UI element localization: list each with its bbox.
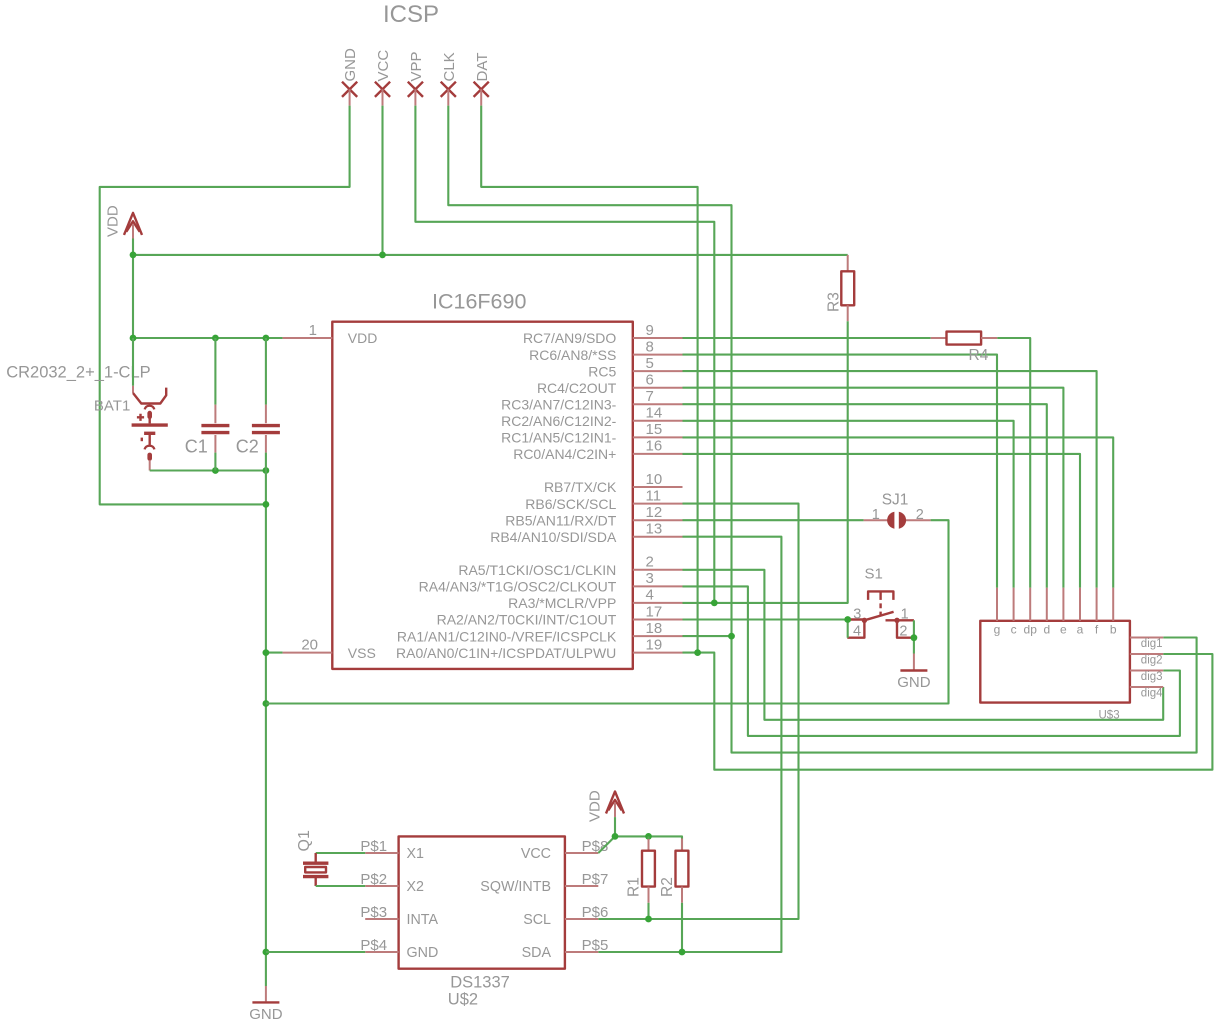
svg-text:RC7/AN9/SDO: RC7/AN9/SDO [523,330,616,346]
svg-text:4: 4 [853,624,861,640]
svg-text:RC5: RC5 [588,363,616,379]
svg-text:P$6: P$6 [582,904,609,921]
svg-text:P$5: P$5 [582,937,609,954]
wire: R4 to display dp [997,338,1030,588]
IC pin 8 RC6/AN8/*SS [633,354,683,356]
svg-text:13: 13 [646,521,663,538]
junction: VPP / RA3 [711,600,718,607]
svg-text:RB5/AN11/RX/DT: RB5/AN11/RX/DT [505,512,616,528]
svg-text:5: 5 [646,355,654,372]
IC pin 4 RA3/*MCLR/VPP [633,602,683,604]
battery BAT1 negative plate [144,432,155,435]
wire: S1 pin 2 to GND [913,620,915,653]
wire: ground rail to IC VSS pin 20 [266,652,283,654]
display U$3 pin d [1046,588,1048,621]
svg-text:d: d [1043,623,1050,637]
svg-text:RC3/AN7/C12IN3-: RC3/AN7/C12IN3- [501,396,616,412]
IC pin 12 RB5/AN11/RX/DT [633,519,683,521]
VDD symbol pin [132,224,134,239]
IC pin 3 RA4/AN3/*T1G/OSC2/CLKOUT [633,585,683,587]
ICSP pad CLK: not-connected X mark [441,82,456,97]
ICSP pad CLK pin stub [447,89,449,105]
ground symbol (S1) bar [900,669,927,671]
wire: crystal to X2 [316,885,366,887]
svg-text:RA5/T1CKI/OSC1/CLKIN: RA5/T1CKI/OSC1/CLKIN [458,562,616,578]
battery BAT1 stem [148,419,150,424]
svg-text:dig3: dig3 [1141,671,1163,683]
svg-text:GND: GND [897,674,931,691]
DS1337 pin P$7 SQW/INTB [565,885,598,887]
junction: R1 / SCL [645,916,652,923]
junction: RA2 / S1 pins 3-4 [844,616,851,623]
svg-text:R2: R2 [659,877,676,897]
svg-text:X2: X2 [407,879,425,895]
svg-text:15: 15 [646,421,663,438]
svg-text:DAT: DAT [474,53,491,82]
wire: ICSP VCC down to VDD rail [381,106,383,255]
ICSP pad DAT pin stub [480,89,482,105]
svg-text:S1: S1 [865,565,883,582]
svg-text:10: 10 [646,471,663,488]
svg-text:P$3: P$3 [360,904,387,921]
wire: VDD node to R1/R2 tops [615,836,682,850]
battery BAT1 positive plate [132,423,168,426]
crystal Q1 bottom plate [303,875,328,878]
svg-text:VDD: VDD [348,330,378,346]
ICSP pad VPP: not-connected X mark [408,82,423,97]
crystal Q1 top plate [303,862,328,865]
svg-text:dig2: dig2 [1141,654,1163,666]
ground symbol (bottom left) pin [265,986,267,1001]
wire: SJ1 pin 2 to ground rail [266,520,949,703]
svg-text:DS1337: DS1337 [450,974,510,992]
svg-text:g: g [994,623,1001,637]
ICSP pad VCC pin stub [382,89,384,105]
svg-text:RC2/AN6/C12IN2-: RC2/AN6/C12IN2- [501,413,616,429]
wire: RC3 to display d [683,404,1047,588]
svg-text:2: 2 [646,554,654,571]
svg-text:16: 16 [646,438,663,455]
svg-text:4: 4 [646,587,654,604]
IC pin 14 RC2/AN6/C12IN2- [633,420,683,422]
junction: R1 top [645,833,652,840]
junction: C1 top [212,335,219,342]
ICSP pad DAT: not-connected X mark [474,82,489,97]
svg-text:SCL: SCL [523,912,551,928]
capacitor C1 bottom lead [214,435,216,453]
display U$3 pin dp [1029,588,1031,621]
svg-text:U$2: U$2 [448,990,478,1008]
battery BAT1 bottom clip arc [145,446,155,450]
display U$3 pin dig2 [1130,653,1163,655]
svg-text:12: 12 [646,504,663,521]
junction: ground rail / SJ1 return [263,700,270,707]
svg-text:Q1: Q1 [296,830,313,851]
svg-text:17: 17 [646,603,663,620]
junction: C1 bottom [212,467,219,474]
svg-text:14: 14 [646,405,663,422]
IC pin 10 RB7/TX/CK [633,486,683,488]
ground symbol (S1) pin [913,654,915,670]
wire: S1 pin4 tie [847,620,849,638]
resistor R1 body [642,851,655,887]
junction: VDD / VCC [612,833,619,840]
svg-text:RA0/AN0/C1IN+/ICSPDAT/ULPWU: RA0/AN0/C1IN+/ICSPDAT/ULPWU [396,645,616,661]
wire: R3 to RA3/MCLR row [683,321,848,603]
svg-text:C2: C2 [236,436,259,456]
wire: RC0 to display a [683,454,1081,588]
VDD (DS1337) symbol pin [614,803,616,818]
wire: ICSP GND down, left rail x=100, to ground bus [100,106,350,505]
wire: RC6 to display g [683,355,998,588]
svg-text:R1: R1 [626,877,643,897]
svg-text:2: 2 [916,507,924,523]
wire: RA1 to CLK vertical [683,635,732,637]
IC pin 20 VSS [283,652,333,654]
wire: ICSP DAT to RA0/ICSPDAT net [481,106,697,653]
IC pin 17 RA2/AN2/T0CKI/INT/C1OUT [633,619,683,621]
switch S1 actuator bracket [868,591,893,600]
solder jumper SJ1 right pad [899,512,906,529]
ICSP pad VCC: not-connected X mark [375,82,390,97]
IC pin 6 RC4/C2OUT [633,387,683,389]
IC pin 1 VDD [283,337,333,339]
wire: ground rail down to GND symbol [265,471,267,987]
wire: VDD symbol down to pin-1 row [132,239,134,339]
capacitor C1 top lead [214,338,216,405]
svg-text:VSS: VSS [348,645,376,661]
wire: RC2 to display c [683,421,1014,588]
switch S1 pin 4 bracket [847,620,864,637]
wire: RA0 to display dig2 [683,653,1213,770]
switch S1 actuator center stub [879,591,881,600]
wire: VDD row to IC pin 1 [133,337,283,339]
wire: ground rail to DS1337 GND [266,951,365,953]
resistor R4 left pin [931,337,947,339]
ground symbol (bottom left) bar [252,1001,279,1003]
resistor R2 top pin [681,850,683,852]
DS1337 pin P$3 INTA [365,918,398,920]
junction: ground rail / ICSP-GND return [263,501,270,508]
wire: ICSP CLK to RA1/ICSPCLK net [448,106,731,637]
svg-text:VDD: VDD [587,790,604,822]
wire: RC1 to display b [683,437,1114,587]
wire: VDD symbol down [614,817,616,836]
svg-text:dp: dp [1024,623,1038,637]
ICSP pad GND pin stub [349,89,351,105]
IC pin 11 RB6/SCK/SCL [633,503,683,505]
battery BAT1 bottom terminal oval [147,453,152,461]
svg-text:9: 9 [646,322,654,339]
wire: RB6/SCL to DS1337 SCL [598,504,798,919]
battery BAT1 pin + [132,386,134,393]
svg-text:3: 3 [853,606,861,622]
wire: RA4 to display dig3 [683,586,1180,736]
svg-text:SJ1: SJ1 [882,491,909,508]
wire: VDD horizontal rail to R3 [133,254,848,256]
svg-text:CLK: CLK [441,52,458,81]
wire: RC5 to display f [683,371,1097,588]
switch S1 pin 1 stub [886,619,914,621]
display U$3 pin f [1096,588,1098,621]
svg-text:RA4/AN3/*T1G/OSC2/CLKOUT: RA4/AN3/*T1G/OSC2/CLKOUT [419,579,617,595]
DS1337 pin P$4 GND [365,951,398,953]
junction: C2 top [263,335,270,342]
display U$3 pin e [1062,588,1064,621]
resistor R4 body [947,332,982,345]
battery BAT1 minus stem [148,435,150,445]
battery BAT1 bottom pin [149,461,151,471]
junction: CLK / RA1 [728,633,735,640]
DS1337 pin P$5 SDA [565,951,598,953]
svg-text:19: 19 [646,636,663,653]
DS1337 pin P$8 VCC [565,852,598,854]
resistor R2 body [676,851,689,887]
junction: R2 / SDA [679,949,686,956]
svg-text:20: 20 [301,636,318,653]
display U$3 pin c [1013,588,1015,621]
battery BAT1 top clip arc [145,406,155,410]
switch S1 pin 3 lead [848,618,865,620]
junction: DAT / RA0 [694,649,701,656]
wire: diagonal VCC pin to VDD node [598,836,615,853]
svg-text:1: 1 [872,507,880,523]
solder jumper SJ1 pin 2 lead [905,519,930,521]
resistor R4 right pin [981,337,997,339]
battery BAT1 coin-cell holder: top clip [133,388,166,404]
display U$3 pin dig1 [1130,637,1163,639]
wire: pin-1 row down to battery + [132,338,134,386]
svg-text:R3: R3 [826,292,843,312]
svg-text:e: e [1060,623,1067,637]
svg-text:RB6/SCK/SCL: RB6/SCK/SCL [525,496,616,512]
svg-text:IC16F690: IC16F690 [432,289,526,313]
svg-text:6: 6 [646,372,654,389]
svg-text:RB7/TX/CK: RB7/TX/CK [544,479,617,495]
svg-text:VDD: VDD [105,205,122,237]
battery BAT1 plus sign [137,414,144,421]
svg-text:18: 18 [646,620,663,637]
capacitor C2 top lead [265,338,267,405]
junction: VDD rail / ICSP VCC [379,252,386,259]
battery BAT1 plus terminal oval [147,411,152,419]
svg-text:RA3/*MCLR/VPP: RA3/*MCLR/VPP [508,595,616,611]
IC pin 15 RC1/AN5/C12IN1- [633,436,683,438]
svg-text:RA1/AN1/C12IN0-/VREF/ICSPCLK: RA1/AN1/C12IN0-/VREF/ICSPCLK [397,628,617,644]
svg-text:3: 3 [646,570,654,587]
resistor R3 bottom pin [847,305,849,321]
resistor R1 top pin [648,838,650,851]
wire: R1 to SCL row [647,903,649,919]
svg-text:GND: GND [342,48,359,82]
DS1337 pin P$2 X2 [365,885,398,887]
svg-text:RC6/AN8/*SS: RC6/AN8/*SS [529,347,616,363]
svg-text:c: c [1011,623,1017,637]
capacitor C2 plates [252,424,280,427]
display U$3 pin g [996,588,998,621]
svg-text:VCC: VCC [375,50,392,82]
junction: ground rail / DS1337 GND [263,949,270,956]
svg-text:11: 11 [646,487,662,504]
svg-text:SDA: SDA [522,945,552,961]
svg-text:BAT1: BAT1 [94,398,130,415]
IC pin 2 RA5/T1CKI/OSC1/CLKIN [633,569,683,571]
svg-text:RC1/AN5/C12IN1-: RC1/AN5/C12IN1- [501,430,616,446]
IC pin 5 RC5 [633,370,683,372]
svg-text:RA2/AN2/T0CKI/INT/C1OUT: RA2/AN2/T0CKI/INT/C1OUT [437,612,617,628]
IC U1 IC16F690 body [332,322,633,669]
resistor R2 bottom pin [681,887,683,903]
display U$3 pin dig3 [1130,670,1163,672]
svg-text:U$3: U$3 [1099,709,1120,721]
battery BAT1 minus sign [141,438,143,442]
display U$3 pin a [1079,588,1081,621]
DS1337 pin P$1 X1 [365,852,398,854]
ICSP pad GND: not-connected X mark [342,82,357,97]
crystal Q1 bottom lead [315,877,317,886]
junction: C2 bottom / ground rail [263,467,270,474]
wire: RC4 to display e [683,388,1064,588]
svg-text:7: 7 [646,388,654,405]
junction: ground rail / VSS [263,649,270,656]
svg-text:C1: C1 [185,436,208,456]
IC pin 18 RA1/AN1/C12IN0-/VREF/ICSPCLK [633,635,683,637]
svg-text:R4: R4 [969,347,989,364]
switch S1 actuator dashed plunger [879,603,881,615]
resistor R1 bottom pin [648,887,650,903]
svg-text:a: a [1077,623,1084,637]
svg-text:VPP: VPP [408,51,425,81]
svg-text:8: 8 [646,338,654,355]
IC pin 9 RC7/AN9/SDO [633,337,683,339]
wire: RB4/SDA to DS1337 SDA [598,537,781,952]
svg-text:P$7: P$7 [582,871,609,888]
switch S1 contact 1 [894,618,899,623]
svg-text:1: 1 [901,606,909,622]
svg-text:X1: X1 [407,846,425,862]
crystal Q1 top lead [315,853,317,863]
display U$3 pin dig4 [1130,686,1163,688]
svg-text:GND: GND [407,945,439,961]
svg-text:dig4: dig4 [1141,687,1163,699]
svg-text:ICSP: ICSP [383,1,439,28]
svg-text:2: 2 [899,624,907,640]
svg-text:1: 1 [309,322,317,339]
junction: VDD rail / VDD symbol [130,252,137,259]
ICSP pad VPP pin stub [414,89,416,105]
capacitor C1 plates [201,424,229,427]
supply symbol VDD (top-left): arrow [124,213,142,235]
capacitor C2 bottom lead [265,435,267,453]
svg-text:SQW/INTB: SQW/INTB [480,879,551,895]
resistor R3 body [841,271,854,305]
supply symbol VDD (DS1337): arrow [606,792,624,814]
IC pin 19 RA0/AN0/C1IN+/ICSPDAT/ULPWU [633,652,683,654]
wire: RB5 to SJ1 pin 1 [683,519,864,521]
DS1337 pin P$6 SCL [565,918,598,920]
svg-text:CR2032_2+_1-CLP: CR2032_2+_1-CLP [6,364,150,382]
switch S1 contact 3 [862,618,867,623]
svg-text:VCC: VCC [521,846,551,862]
IC pin 13 RB4/AN10/SDI/SDA [633,536,683,538]
switch S1 pin 2 bracket [897,620,914,637]
display U$3 pin b [1112,588,1114,621]
junction: S1 pins 1-2 / GND wire [911,634,918,641]
wire: RA2 to S1 [683,618,848,620]
wire: RC7 to R4 [683,337,931,339]
svg-text:RC0/AN4/C2IN+: RC0/AN4/C2IN+ [513,446,616,462]
IC pin 16 RC0/AN4/C2IN+ [633,453,683,455]
wire: X1 to crystal [316,852,366,854]
IC U$2 DS1337 body [399,836,565,968]
junction: battery + / VDD vertical [130,335,137,342]
svg-text:b: b [1110,623,1117,637]
solder jumper SJ1 pin 1 lead [864,519,888,521]
svg-text:RB4/AN10/SDI/SDA: RB4/AN10/SDI/SDA [490,529,617,545]
crystal Q1 body [305,867,326,872]
svg-text:RC4/C2OUT: RC4/C2OUT [537,380,617,396]
wire: RA5 to display dig4 [683,570,1164,720]
svg-text:dig1: dig1 [1141,638,1163,650]
wire: R2 to SDA row [681,903,683,952]
svg-text:INTA: INTA [407,912,439,928]
switch S1 lever [864,612,893,621]
resistor R3 top pin [847,255,849,271]
wire: battery - to C1/C2 bottoms [150,469,266,471]
IC pin 7 RC3/AN7/C12IN3- [633,403,683,405]
wire: RA1 to display dig1 [732,636,1197,753]
svg-text:GND: GND [249,1006,283,1023]
wire: ICSP VPP to RA3/MCLR net [415,106,714,603]
display U$3 body [980,621,1130,703]
solder jumper SJ1 left pad [887,512,894,529]
